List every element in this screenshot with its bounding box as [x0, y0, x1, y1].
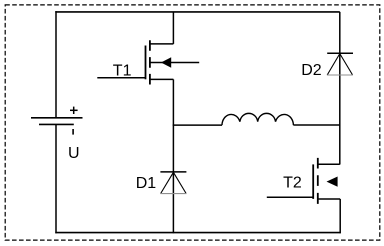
- wire bottom bus: [55, 232, 340, 234]
- diode D2 triangle sides: [327, 54, 352, 75]
- diode D1 triangle sides: [161, 172, 187, 193]
- T1 drain tap: [150, 43, 174, 45]
- wire T1 drain to top bus: [172, 12, 174, 44]
- diode D2 cathode bar: [327, 52, 353, 54]
- T1 body line: [150, 62, 199, 64]
- T2 body arrow: [327, 177, 338, 187]
- T2 channel dashes: [317, 158, 319, 204]
- inductor L: [222, 113, 293, 125]
- T1 gate bar: [145, 46, 147, 80]
- node A : T1 source / D1 / inductor junction vertical wire: [172, 79, 174, 233]
- wire middle left (node A to inductor): [173, 124, 222, 126]
- T2 source tap: [318, 198, 340, 200]
- voltage source U : plus sign: [70, 107, 78, 114]
- diode D1 cathode bar: [160, 171, 186, 173]
- diode D1 triangle base: [160, 193, 186, 195]
- svg-text:T1: T1: [113, 63, 132, 80]
- transistor T1 (N-MOSFET): [97, 40, 199, 84]
- wire left vertical lower (U- to bottom bus): [55, 124, 57, 233]
- svg-text:D2: D2: [301, 62, 322, 79]
- wire left vertical upper (U+ to top bus): [55, 11, 57, 117]
- svg-text:T2: T2: [283, 175, 302, 192]
- node B : right vertical wire (top bus through D2 to T2 drain): [339, 12, 341, 165]
- wire middle right (inductor to node B): [293, 124, 339, 126]
- wire T2 gate lead: [267, 196, 313, 198]
- wire T2 source to bottom bus: [339, 199, 341, 233]
- svg-text:U: U: [68, 145, 80, 162]
- T2 drain tap: [318, 163, 340, 165]
- svg-text:D1: D1: [136, 175, 157, 192]
- diode D2 triangle base: [327, 74, 353, 76]
- T1 body arrow: [161, 57, 171, 67]
- transistor T2 (N-MOSFET): [267, 158, 340, 204]
- voltage source U : long plate (+): [31, 117, 83, 119]
- T1 source tap: [150, 78, 174, 80]
- voltage source U : short plate (-): [39, 123, 74, 125]
- voltage source U : minus tick: [72, 129, 74, 135]
- T1 channel dashes: [149, 40, 151, 84]
- wire T1 gate lead: [97, 77, 145, 79]
- T2 gate bar: [312, 164, 314, 199]
- wire top bus: [55, 11, 340, 13]
